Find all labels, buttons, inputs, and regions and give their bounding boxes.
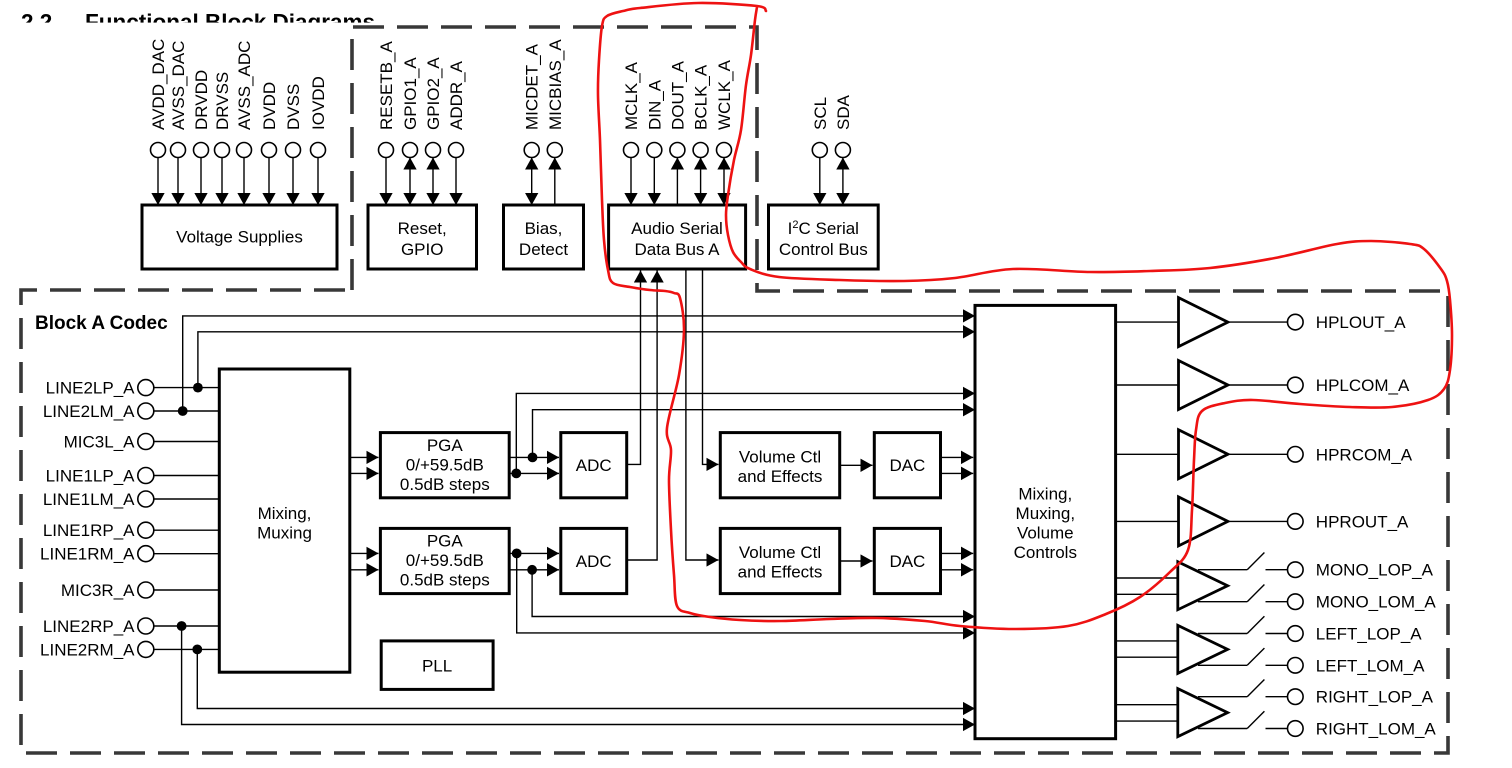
svg-text:PGA: PGA	[427, 436, 464, 455]
block I2C Serial Control Bus	[769, 205, 879, 269]
switch RIGHT_LOM	[1247, 711, 1264, 728]
wire MONO_LOM out	[1198, 601, 1247, 603]
wire PGA2 upper to ADC2	[509, 552, 559, 554]
svg-text:DIN_A: DIN_A	[645, 79, 664, 130]
svg-text:Audio Serial: Audio Serial	[631, 219, 723, 238]
op-amp HPRCOM buffer	[1179, 430, 1228, 479]
wire RIGHT_LOM out	[1198, 728, 1247, 730]
wire to MONO amp upper	[1116, 577, 1178, 579]
svg-text:HPLCOM_A: HPLCOM_A	[1316, 376, 1410, 395]
wire HPRCOM out	[1228, 453, 1287, 455]
wire PGA2 lower tap to volume box	[532, 570, 975, 617]
block Bias, Detect	[504, 205, 584, 269]
wire to HPLCOM amp	[1116, 384, 1179, 386]
svg-text:LINE1RM_A: LINE1RM_A	[40, 545, 135, 564]
pin LINE1RM_A	[40, 545, 219, 564]
wire DAC1 out lower	[941, 472, 974, 474]
svg-text:and Effects: and Effects	[738, 563, 823, 582]
svg-text:DAC: DAC	[889, 456, 925, 475]
svg-text:Data Bus A: Data Bus A	[634, 240, 720, 259]
pin AVSS_DAC	[169, 41, 188, 205]
block Voltage Supplies	[142, 205, 337, 269]
block Volume Ctl and Effects 2	[720, 528, 839, 593]
wire HPLCOM out	[1228, 384, 1287, 386]
svg-text:DOUT_A: DOUT_A	[668, 60, 687, 130]
svg-text:MONO_LOM_A: MONO_LOM_A	[1316, 593, 1437, 612]
svg-text:ADC: ADC	[576, 552, 612, 571]
block DAC 2	[874, 528, 940, 593]
svg-text:HPLOUT_A: HPLOUT_A	[1316, 313, 1406, 332]
wire Volume2 to DAC2	[840, 560, 873, 562]
svg-text:ADC: ADC	[576, 456, 612, 475]
op-amp HPLOUT buffer	[1179, 298, 1228, 347]
svg-text:RESETB_A: RESETB_A	[377, 41, 396, 130]
node junction LINE2LP_A	[193, 383, 203, 393]
svg-text:Control Bus: Control Bus	[779, 240, 868, 259]
svg-text:BCLK_A: BCLK_A	[692, 64, 711, 130]
node junction PGA1 upper	[528, 453, 538, 463]
wire LINE2RM_A bypass to bottom	[197, 649, 975, 708]
svg-text:DRVDD: DRVDD	[192, 70, 211, 130]
block ADC 2	[561, 528, 627, 593]
svg-text:DVSS: DVSS	[284, 84, 303, 130]
svg-text:Muxing: Muxing	[257, 523, 312, 542]
wire RIGHT_LOP stub	[1266, 696, 1288, 698]
pin DOUT_A	[668, 60, 687, 205]
svg-text:RIGHT_LOP_A: RIGHT_LOP_A	[1316, 688, 1434, 707]
wire to LEFT amp lower	[1116, 656, 1178, 658]
block Mixing, Muxing U1	[219, 369, 349, 672]
switch LEFT_LOP	[1247, 616, 1264, 633]
wire to RIGHT amp lower	[1116, 720, 1178, 722]
pin DIN_A	[645, 79, 664, 205]
pin GPIO1_A	[401, 57, 420, 205]
svg-text:LEFT_LOM_A: LEFT_LOM_A	[1316, 656, 1425, 675]
block PGA 1	[380, 433, 509, 498]
wire LEFT_LOM stub	[1266, 664, 1288, 666]
wire to HPROUT amp	[1116, 520, 1179, 522]
pin LINE1LM_A	[43, 490, 219, 509]
pin DVDD	[260, 82, 279, 205]
wire ADC2 out up to audio bus	[627, 271, 657, 561]
wire to RIGHT amp upper	[1116, 704, 1178, 706]
pin LINE2RM_A	[40, 640, 219, 659]
node junction PGA2 upper	[512, 549, 522, 559]
svg-text:Voltage Supplies: Voltage Supplies	[176, 228, 303, 247]
pin MONO_LOP_A	[1288, 561, 1434, 580]
wire audio bus down to Volume1	[703, 269, 719, 464]
svg-text:Block A Codec: Block A Codec	[35, 313, 168, 334]
pin LINE2LM_A	[43, 402, 219, 421]
wire PGA1 upper tap to volume box	[533, 410, 976, 458]
svg-text:DVDD: DVDD	[260, 82, 279, 130]
pin MIC3R_A	[61, 581, 219, 600]
wire Mixing to PGA2 lower	[350, 569, 379, 571]
wire DAC2 out lower	[941, 569, 974, 571]
switch MONO_LOP	[1247, 553, 1264, 570]
svg-text:GPIO1_A: GPIO1_A	[401, 57, 420, 130]
wire MONO_LOP out	[1198, 569, 1247, 571]
svg-text:IOVDD: IOVDD	[309, 76, 328, 130]
wire ADC1 out up to audio bus	[627, 271, 641, 465]
pin DRVDD	[192, 70, 211, 205]
wire RIGHT_LOM stub	[1266, 728, 1288, 730]
pin GPIO2_A	[424, 57, 443, 205]
red freehand annotation loop	[598, 3, 1452, 629]
svg-text:0.5dB steps: 0.5dB steps	[400, 475, 490, 494]
pin DVSS	[284, 84, 303, 205]
svg-text:SDA: SDA	[834, 94, 853, 130]
wire DAC1 out upper	[941, 456, 974, 458]
svg-text:PGA: PGA	[427, 532, 464, 551]
svg-text:Muxing,: Muxing,	[1016, 504, 1076, 523]
block PGA 2	[380, 528, 509, 593]
wire LINE2LP_A bypass to top	[198, 332, 975, 388]
pin BCLK_A	[692, 64, 711, 205]
svg-text:0/+59.5dB: 0/+59.5dB	[406, 551, 484, 570]
block PLL	[381, 641, 493, 690]
node junction LINE2LM_A	[178, 406, 188, 416]
svg-text:Volume Ctl: Volume Ctl	[739, 543, 821, 562]
block Audio Serial Data Bus A	[609, 205, 746, 269]
wire PGA1 lower to ADC1	[509, 472, 559, 474]
svg-text:I2C Serial: I2C Serial	[788, 219, 859, 238]
op-amp LEFT line driver	[1178, 625, 1228, 673]
wire MONO_LOM stub	[1266, 601, 1288, 603]
wire to MONO amp lower	[1116, 593, 1178, 595]
svg-text:AVDD_DAC: AVDD_DAC	[149, 39, 168, 130]
op-amp RIGHT line driver	[1178, 689, 1228, 737]
svg-text:Reset,: Reset,	[398, 219, 447, 238]
pin DRVSS	[213, 72, 232, 205]
svg-text:MIC3R_A: MIC3R_A	[61, 581, 135, 600]
svg-text:MICDET_A: MICDET_A	[523, 43, 542, 130]
svg-text:and Effects: and Effects	[738, 467, 823, 486]
svg-text:Volume Ctl: Volume Ctl	[739, 447, 821, 466]
svg-text:MCLK_A: MCLK_A	[622, 61, 641, 130]
wire LINE2RP_A bypass to bottom	[182, 626, 975, 725]
pin SDA	[834, 94, 853, 205]
wire MONO_LOP stub	[1266, 569, 1288, 571]
svg-text:LINE1RP_A: LINE1RP_A	[43, 521, 135, 540]
svg-text:ADDR_A: ADDR_A	[447, 60, 466, 130]
svg-text:HPROUT_A: HPROUT_A	[1316, 512, 1409, 531]
svg-text:MIC3L_A: MIC3L_A	[64, 433, 136, 452]
block Volume Ctl and Effects 1	[720, 433, 839, 498]
pin AVDD_DAC	[149, 39, 168, 205]
pin ADDR_A	[447, 60, 466, 205]
svg-text:GPIO: GPIO	[401, 240, 444, 259]
wire HPROUT out	[1228, 520, 1287, 522]
op-amp HPLCOM buffer	[1179, 361, 1228, 410]
wire DAC2 out upper	[941, 552, 974, 554]
svg-text:Mixing,: Mixing,	[258, 504, 312, 523]
svg-text:Controls: Controls	[1014, 543, 1077, 562]
svg-text:LINE2RM_A: LINE2RM_A	[40, 640, 135, 659]
switch MONO_LOM	[1247, 585, 1264, 602]
pin LINE1RP_A	[43, 521, 219, 540]
pin LEFT_LOP_A	[1288, 625, 1423, 644]
wire Mixing to PGA1 upper	[350, 456, 379, 458]
pin RIGHT_LOP_A	[1288, 688, 1434, 707]
wire PGA1 lower tap to volume box	[516, 393, 975, 473]
node junction PGA2 lower	[527, 565, 537, 575]
pin HPROUT_A	[1288, 512, 1410, 531]
node junction LINE2RM_A	[192, 645, 202, 655]
wire RIGHT_LOP out	[1198, 696, 1247, 698]
block Reset, GPIO	[368, 205, 477, 269]
pin LINE2LP_A	[46, 379, 220, 398]
wire LEFT_LOM out	[1198, 664, 1247, 666]
pin RIGHT_LOM_A	[1288, 720, 1437, 739]
block DAC 1	[874, 433, 940, 498]
op-amp MONO line driver	[1178, 562, 1228, 610]
svg-text:PLL: PLL	[422, 657, 452, 676]
wire to HPLOUT amp	[1116, 321, 1179, 323]
pin AVSS_ADC	[235, 41, 254, 205]
pin LINE2RP_A	[43, 617, 219, 636]
svg-text:0.5dB steps: 0.5dB steps	[400, 571, 490, 590]
svg-text:LINE2RP_A: LINE2RP_A	[43, 617, 135, 636]
svg-text:LINE2LP_A: LINE2LP_A	[46, 379, 135, 398]
svg-text:Bias,: Bias,	[525, 219, 563, 238]
svg-text:Mixing,: Mixing,	[1018, 484, 1072, 503]
svg-text:LINE1LM_A: LINE1LM_A	[43, 490, 135, 509]
svg-text:DRVSS: DRVSS	[213, 72, 232, 130]
wire Volume1 to DAC1	[840, 464, 873, 466]
wire LEFT_LOP out	[1198, 633, 1247, 635]
node junction LINE2RP_A	[177, 621, 187, 631]
pin MIC3L_A	[64, 433, 220, 452]
pin LINE1LP_A	[46, 467, 220, 486]
svg-text:MICBIAS_A: MICBIAS_A	[546, 39, 565, 130]
wire HPLOUT out	[1228, 321, 1287, 323]
pin SCL	[811, 97, 830, 205]
wire PGA1 upper to ADC1	[509, 456, 559, 458]
pin HPLOUT_A	[1288, 313, 1407, 332]
wire PGA2 lower to ADC2	[509, 569, 559, 571]
pin MONO_LOM_A	[1288, 593, 1437, 612]
svg-text:LEFT_LOP_A: LEFT_LOP_A	[1316, 625, 1422, 644]
wire PGA2 upper tap to volume box	[517, 553, 975, 633]
svg-text:AVSS_ADC: AVSS_ADC	[235, 41, 254, 130]
wire LINE2LM_A bypass to top	[183, 316, 975, 411]
pin MCLK_A	[622, 61, 641, 205]
svg-text:SCL: SCL	[811, 97, 830, 130]
svg-text:Detect: Detect	[519, 240, 568, 259]
node junction PGA1 lower	[511, 469, 521, 479]
block Mixing, Muxing, Volume Controls U2	[975, 305, 1116, 738]
pin MICDET_A	[523, 43, 542, 205]
wire to LEFT amp upper	[1116, 640, 1178, 642]
svg-text:MONO_LOP_A: MONO_LOP_A	[1316, 561, 1434, 580]
svg-text:LINE1LP_A: LINE1LP_A	[46, 467, 135, 486]
svg-text:WCLK_A: WCLK_A	[715, 59, 734, 130]
wire to HPRCOM amp	[1116, 453, 1179, 455]
pin HPLCOM_A	[1288, 376, 1410, 395]
svg-text:AVSS_DAC: AVSS_DAC	[169, 41, 188, 130]
svg-text:RIGHT_LOM_A: RIGHT_LOM_A	[1316, 720, 1437, 739]
pin LEFT_LOM_A	[1288, 656, 1426, 675]
switch LEFT_LOM	[1247, 648, 1264, 665]
wire LEFT_LOP stub	[1266, 633, 1288, 635]
wire audio bus down to Volume2	[686, 269, 719, 560]
wire Mixing to PGA2 upper	[350, 552, 379, 554]
svg-text:LINE2LM_A: LINE2LM_A	[43, 402, 135, 421]
svg-text:DAC: DAC	[889, 552, 925, 571]
svg-text:HPRCOM_A: HPRCOM_A	[1316, 445, 1413, 464]
pin MICBIAS_A	[546, 39, 565, 205]
pin HPRCOM_A	[1288, 445, 1413, 464]
pin RESETB_A	[377, 41, 396, 205]
pin WCLK_A	[715, 59, 734, 205]
pin IOVDD	[309, 76, 328, 205]
svg-text:GPIO2_A: GPIO2_A	[424, 57, 443, 130]
op-amp HPROUT buffer	[1179, 497, 1228, 546]
switch RIGHT_LOP	[1247, 680, 1264, 697]
block ADC 1	[561, 433, 627, 498]
wire Mixing to PGA1 lower	[350, 472, 379, 474]
svg-text:0/+59.5dB: 0/+59.5dB	[406, 455, 484, 474]
svg-text:Volume: Volume	[1017, 523, 1074, 542]
